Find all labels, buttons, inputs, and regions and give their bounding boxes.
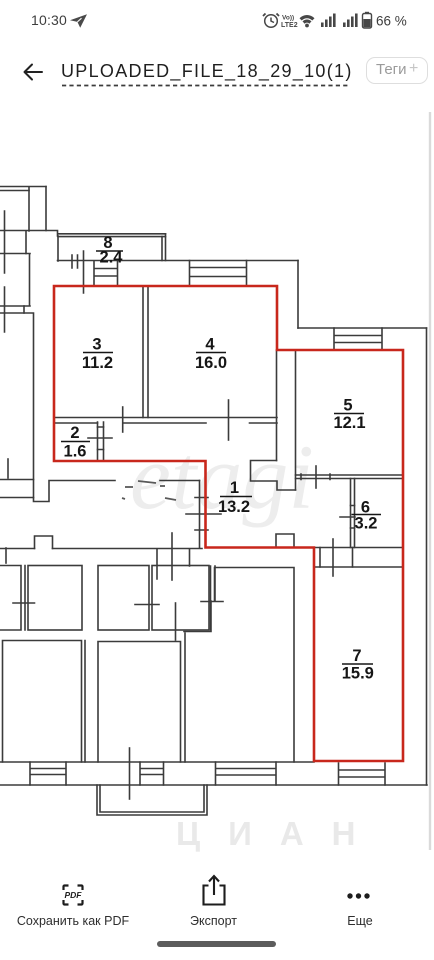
lower window 2 — [140, 762, 164, 785]
svg-text:1.6: 1.6 — [64, 443, 87, 461]
corridor band v x276 — [276, 350, 278, 461]
wall v x172 lower — [171, 533, 173, 580]
balcony 8 left wall — [57, 236, 59, 261]
room 5 door tick — [315, 466, 317, 488]
gesture pill — [157, 941, 276, 947]
lower flat box4 right band — [211, 566, 216, 630]
svg-text:15.9: 15.9 — [342, 665, 374, 683]
wall outer h y328 — [298, 327, 427, 329]
wall right outer vertical x298 — [297, 261, 299, 329]
tick v x8 — [7, 459, 9, 478]
lower flat wall band x185 — [184, 633, 186, 762]
svg-text:3: 3 — [92, 336, 101, 354]
lower flat box2 — [28, 566, 82, 631]
status bar right icons — [258, 8, 418, 32]
scrollbar — [429, 112, 431, 850]
room 2 wall rungs — [98, 427, 104, 450]
room labels — [61, 234, 381, 683]
wall h y497.5 with notch — [0, 481, 115, 502]
room 6 door tick — [340, 516, 355, 518]
lower flat box4 — [152, 566, 209, 631]
left room box — [0, 254, 30, 307]
lower flat box1 door tick — [13, 602, 35, 604]
toolbar title — [61, 61, 353, 82]
room 7 door tick — [332, 539, 334, 576]
svg-text:PDF: PDF — [65, 890, 83, 900]
room 5 window — [334, 328, 382, 350]
room 5 wall caps — [301, 474, 330, 480]
stair bump — [35, 536, 53, 549]
room 4 window — [190, 261, 247, 287]
lower flat right big room — [184, 568, 294, 763]
svg-text:ЦИАН: ЦИАН — [176, 815, 384, 852]
signal bars 2 — [343, 14, 358, 28]
room 6 left wall double — [351, 479, 355, 548]
balcony 8 right double wall — [162, 234, 166, 261]
lower flat box4 door tick — [201, 601, 223, 603]
lower flat tick v x175 — [175, 603, 177, 640]
svg-text:5: 5 — [343, 397, 352, 415]
lower flat box3 door tick — [135, 604, 159, 606]
svg-text:2: 2 — [70, 424, 79, 442]
lower flat middle big room — [98, 642, 181, 763]
room 6 bottom wall — [314, 547, 403, 549]
room 3 door tick — [122, 407, 124, 432]
svg-text:3.2: 3.2 — [355, 515, 378, 533]
balcony 8 bottom wall to right — [58, 260, 299, 262]
lower flat bottoms y762 — [0, 761, 314, 763]
window lines left outer — [4, 211, 6, 332]
svg-text:1: 1 — [230, 479, 239, 497]
signal bars 1 — [321, 14, 336, 28]
battery — [363, 12, 372, 28]
wifi — [300, 15, 315, 27]
lower flat box1 walls — [0, 566, 25, 631]
watermark CIAN — [176, 815, 384, 852]
wall h y480.5 right part — [160, 480, 200, 482]
room 7 door caps — [320, 548, 353, 568]
watermark etagi — [130, 426, 314, 528]
wall rooms 3-4 bottom lower line segments — [54, 422, 277, 424]
room 2 door tick — [88, 437, 112, 439]
svg-text:12.1: 12.1 — [333, 414, 365, 432]
svg-text:7: 7 — [352, 647, 361, 665]
lower window 3 — [216, 762, 277, 785]
wall h y479.5 — [0, 479, 34, 481]
toolbar back arrow — [20, 59, 46, 85]
wall h y313 + box right edge — [0, 313, 34, 498]
balcony 8 top double wall — [58, 234, 166, 237]
lower balcony inner — [100, 785, 204, 812]
room 3 window — [94, 261, 118, 286]
lower window tick v x129 — [129, 748, 131, 799]
room 5 bottom wall double — [296, 475, 403, 479]
wall stub v x24 — [23, 306, 25, 313]
svg-text:11.2: 11.2 — [82, 354, 113, 372]
toolbar title dashed underline — [62, 84, 350, 87]
handwriting smudges — [122, 481, 176, 500]
corridor notch — [251, 461, 296, 491]
lower balcony outer — [97, 785, 207, 815]
tags chip — [366, 57, 428, 84]
wall outer right vertical x426 — [426, 328, 428, 785]
corridor pillar — [276, 534, 294, 548]
wall jog to balcony — [0, 231, 58, 237]
wall v x26 — [25, 231, 27, 254]
svg-text:13.2: 13.2 — [218, 498, 250, 516]
lower flat box3 — [98, 566, 149, 631]
status bar — [31, 12, 67, 28]
red apartment boundary — [54, 286, 403, 761]
lower window 1 — [30, 762, 66, 785]
bottom bar: more dots — [344, 890, 378, 902]
room 4 door tick — [228, 400, 230, 440]
wall shaft verticals — [29, 187, 46, 232]
svg-text:16.0: 16.0 — [195, 354, 227, 372]
room 6 wall rungs — [351, 506, 355, 529]
alarm clock — [263, 14, 279, 28]
svg-text:4: 4 — [205, 336, 215, 354]
wall rooms 3-4 bottom upper line — [54, 417, 277, 419]
room 7 top wall — [314, 566, 403, 568]
corridor left black wall x199 — [199, 481, 201, 548]
room 7 balcony window — [339, 763, 386, 785]
wall outer bottom y785 — [0, 784, 427, 786]
wall connectors below y549 — [157, 549, 190, 579]
room 2 right wall double — [98, 422, 104, 461]
window ticks below balcony — [72, 251, 84, 293]
bottom bar: export icon — [200, 873, 228, 907]
wall top-left band — [0, 187, 46, 191]
status bar send icon — [68, 12, 90, 30]
wall long h y548.5 — [0, 548, 202, 550]
corridor wall hatch ticks — [195, 498, 208, 531]
corridor band v x295 — [295, 350, 297, 490]
svg-text:2.4: 2.4 — [100, 249, 124, 267]
entrance door dash — [186, 513, 221, 515]
bottom bar: save as pdf icon — [60, 882, 86, 908]
tick v x6 — [5, 548, 7, 563]
lower flat left big room — [3, 641, 86, 763]
wall divider rooms 3-4 — [143, 286, 148, 418]
